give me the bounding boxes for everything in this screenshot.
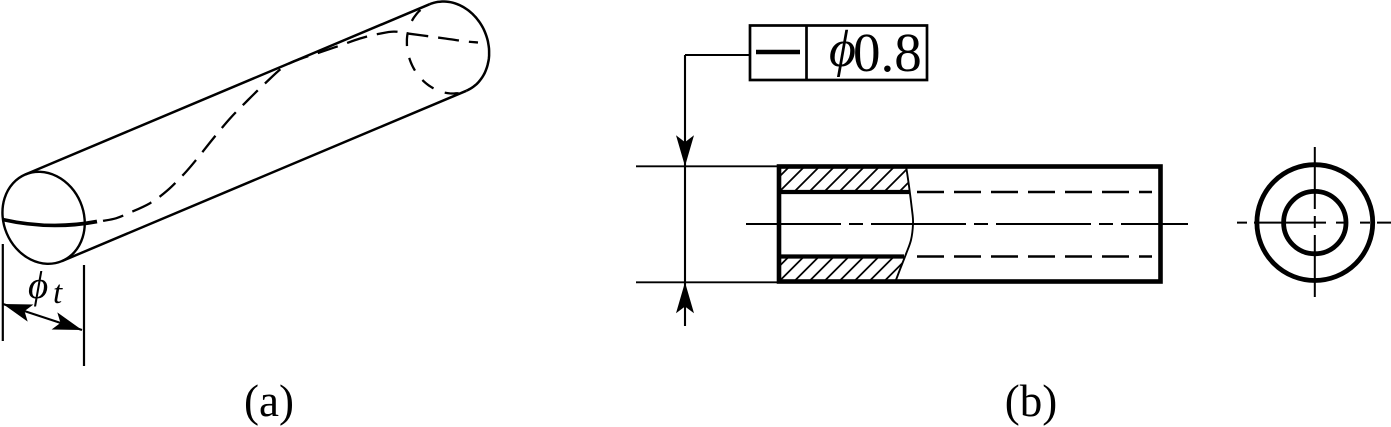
- part outline rectangle: [779, 167, 1161, 282]
- section hatching top band: [749, 167, 1000, 193]
- leader horizontal segment: [685, 54, 750, 56]
- top extension line: [636, 165, 779, 167]
- svg-text:(a): (a): [244, 376, 294, 426]
- end view vertical centerline: [1314, 147, 1316, 298]
- end view inner circle (hole): [1284, 191, 1346, 253]
- hole bottom hidden dashed line: [917, 255, 1152, 258]
- hole top hidden dashed line: [917, 191, 1152, 194]
- cylinder top silhouette line: [25, 4, 429, 174]
- svg-text:t: t: [53, 275, 63, 311]
- hole top wall (sectioned): [779, 190, 909, 194]
- break (wavy) line: [895, 166, 913, 283]
- cylinder right end face visible solid arc: [430, 2, 489, 91]
- leader / dimension vertical line: [684, 55, 686, 326]
- end view horizontal centerline: [1237, 222, 1391, 224]
- svg-text:(b): (b): [1005, 376, 1057, 426]
- phi-t dimension line (double arrow): [3, 304, 82, 330]
- main centerline: [746, 223, 1188, 225]
- feature control frame divider: [805, 26, 808, 81]
- bottom arrowhead pointing up: [676, 282, 694, 313]
- end view outer circle: [1257, 165, 1373, 281]
- cylinder bottom silhouette line: [62, 91, 466, 261]
- svg-text:0.8: 0.8: [853, 22, 922, 83]
- top arrowhead pointing down: [676, 135, 694, 166]
- svg-text:ϕ: ϕ: [28, 264, 48, 307]
- section hatching bottom band: [749, 257, 999, 282]
- svg-text:ϕ: ϕ: [829, 21, 856, 78]
- phi-t left extension line: [2, 244, 4, 341]
- cylinder right end face hidden dashed arc: [407, 4, 466, 93]
- feature control frame box: [750, 26, 927, 81]
- bent axis visible thick curve on left end face: [3, 220, 98, 226]
- bottom extension line: [636, 281, 779, 283]
- straightness symbol: [756, 50, 800, 54]
- phi-t right extension line: [83, 265, 85, 366]
- cylinder left end face ellipse: [0, 159, 99, 277]
- bent axis hidden dashed S-curve: [103, 32, 478, 221]
- hole bottom wall (sectioned): [779, 254, 904, 258]
